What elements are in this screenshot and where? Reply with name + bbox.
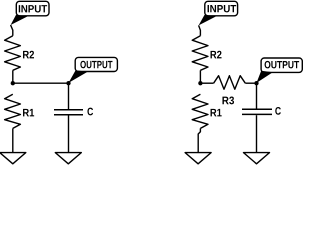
resistor R2 (left) xyxy=(5,36,21,71)
value label R3 (right) xyxy=(222,97,234,105)
capacitor C (right) xyxy=(242,109,272,114)
resistor R3 (right) xyxy=(214,76,246,90)
flag OUTPUT (left) xyxy=(69,57,118,83)
wire capacitor to ground (left) xyxy=(68,116,70,153)
junction node (left, R2/R1/output net) xyxy=(11,81,15,85)
value label R1 (left) xyxy=(23,109,34,117)
wire INPUT to R2 (right) xyxy=(199,25,201,35)
wire node to output junction (left) xyxy=(13,82,69,84)
flag INPUT (right) xyxy=(199,1,238,25)
value label C (right) xyxy=(275,107,281,115)
wire R2 to node (right) xyxy=(199,70,201,83)
value label R1 (right) xyxy=(211,109,222,117)
ground symbol under C (left) xyxy=(55,153,81,164)
resistor R2 (right) xyxy=(192,36,208,71)
wire capacitor to ground (right) xyxy=(256,115,258,152)
wire INPUT to R2 (left) xyxy=(11,25,13,36)
wire R3 to output junction (right) xyxy=(245,82,256,84)
wire junction to capacitor (right) xyxy=(256,83,258,109)
capacitor C (left) xyxy=(54,110,83,115)
junction at capacitor branch (right) xyxy=(254,81,258,85)
junction at capacitor branch (left) xyxy=(66,81,70,85)
junction node (right, R2/R1/R3 net) xyxy=(198,81,202,85)
wire node to R3 (right) xyxy=(200,82,213,84)
flag INPUT (left) xyxy=(11,1,49,25)
wire R2 to node (left) xyxy=(12,70,14,83)
wire junction to capacitor (left) xyxy=(68,83,70,109)
ground symbol under R1 (right) xyxy=(185,153,211,164)
resistor R1 (left) xyxy=(5,94,21,128)
flag OUTPUT (right) xyxy=(257,58,303,83)
value label R2 (left) xyxy=(23,51,34,59)
wire R1 to ground (left) xyxy=(12,128,14,152)
ground symbol under C (right) xyxy=(244,153,270,164)
wire R1 to ground with jog (right) xyxy=(198,128,200,152)
value label C (left) xyxy=(87,108,93,116)
value label R2 (right) xyxy=(211,51,222,59)
resistor R1 (right) xyxy=(192,94,208,128)
ground symbol under R1 (left) xyxy=(0,153,26,164)
